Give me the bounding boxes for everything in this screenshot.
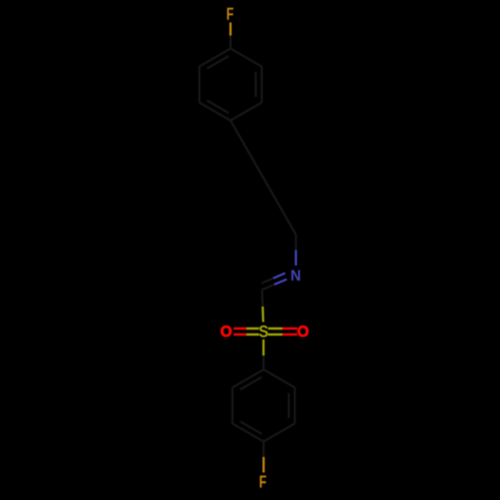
benzene ring 1 (top, 4-fluorophenyl) bbox=[199, 49, 261, 121]
double bond S=O right, lower line (olive half) bbox=[268, 333, 283, 335]
ring2 edge C13-C14 bbox=[264, 424, 295, 442]
bond C10-S (olive half) bbox=[262, 307, 265, 323]
double bond C10=N inner line (carbon half) bbox=[261, 278, 273, 283]
ring1 double bond inner line C4-C5 bbox=[207, 101, 229, 114]
double bond S=O left, upper line (red half) bbox=[234, 327, 247, 329]
ring2 double bond inner line C12-C13 bbox=[288, 393, 290, 418]
bond C10-S (carbon half) bbox=[261, 290, 264, 306]
ring2 double bond inner line C14-C15 bbox=[240, 422, 262, 435]
benzene ring 2 (bottom, 4-fluorophenyl) bbox=[232, 370, 294, 442]
ring1 edge C1-C2 bbox=[231, 49, 262, 67]
ring2 double bond inner line C16-C11 bbox=[240, 377, 262, 390]
ring1 edge C5-C6 bbox=[198, 67, 200, 103]
ring2 edge C15-C16 bbox=[231, 388, 233, 424]
ring2 edge C16-C11 bbox=[232, 370, 263, 388]
sulfur S label bbox=[259, 325, 268, 337]
nitrogen N label bbox=[291, 270, 300, 281]
double bond C10=N main line (carbon half) bbox=[262, 285, 274, 290]
ring1 double bond inner line C2-C3 bbox=[255, 72, 257, 97]
ring1 edge C2-C3 bbox=[261, 67, 263, 103]
ring1 edge C3-C4 bbox=[231, 103, 262, 121]
double bond S=O right, upper line (red half) bbox=[283, 327, 298, 329]
bond C9-N (carbon half) bbox=[295, 235, 297, 251]
double bond S=O right, upper line (olive half) bbox=[268, 327, 283, 329]
double bond C10=N main line (blue half) bbox=[274, 279, 286, 284]
ring2 edge C14-C15 bbox=[232, 424, 263, 442]
ring1 edge C4-C5 bbox=[199, 103, 230, 121]
bond C14-F2 (gold half) bbox=[263, 457, 265, 473]
double bond S=O left, lower line (red half) bbox=[234, 333, 247, 335]
bond S-C11 (olive half) bbox=[262, 340, 264, 356]
fluorine F1 label (top) bbox=[227, 8, 233, 20]
chain C4-C7-C8-C9 (straight diagonal) bbox=[231, 121, 296, 235]
bond C9-N (blue half) bbox=[295, 250, 297, 266]
fluorine F2 label (bottom) bbox=[260, 476, 266, 488]
bond F1-C1 (carbon half) bbox=[230, 36, 232, 49]
double bond S=O right, lower line (red half) bbox=[283, 333, 298, 335]
double bond S=O left, upper line (olive half) bbox=[246, 327, 259, 329]
double bond C10=N inner line (blue half) bbox=[273, 273, 285, 278]
ring2 edge C12-C13 bbox=[294, 388, 296, 424]
bond C14-F2 (carbon half) bbox=[263, 442, 265, 458]
ring2 edge C11-C12 bbox=[264, 370, 295, 388]
bond S-C11 (carbon half) bbox=[263, 356, 265, 370]
double bond S=O left, lower line (olive half) bbox=[246, 333, 259, 335]
oxygen O left label bbox=[221, 326, 232, 337]
ring1 edge C6-C1 bbox=[199, 49, 230, 67]
bond F1-C1 (gold half) bbox=[229, 23, 231, 36]
ring1 double bond inner line C6-C1 bbox=[207, 56, 229, 69]
oxygen O right label bbox=[298, 326, 309, 337]
